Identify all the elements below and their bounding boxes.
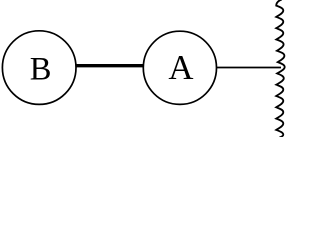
wire thin A to wavy line [216,67,281,69]
node B circle [2,31,76,105]
svg-text:B: B [30,52,52,88]
wire thick B-A [76,64,144,67]
wavy boundary line [276,0,285,138]
svg-text:A: A [168,48,193,87]
node A circle [143,31,216,104]
